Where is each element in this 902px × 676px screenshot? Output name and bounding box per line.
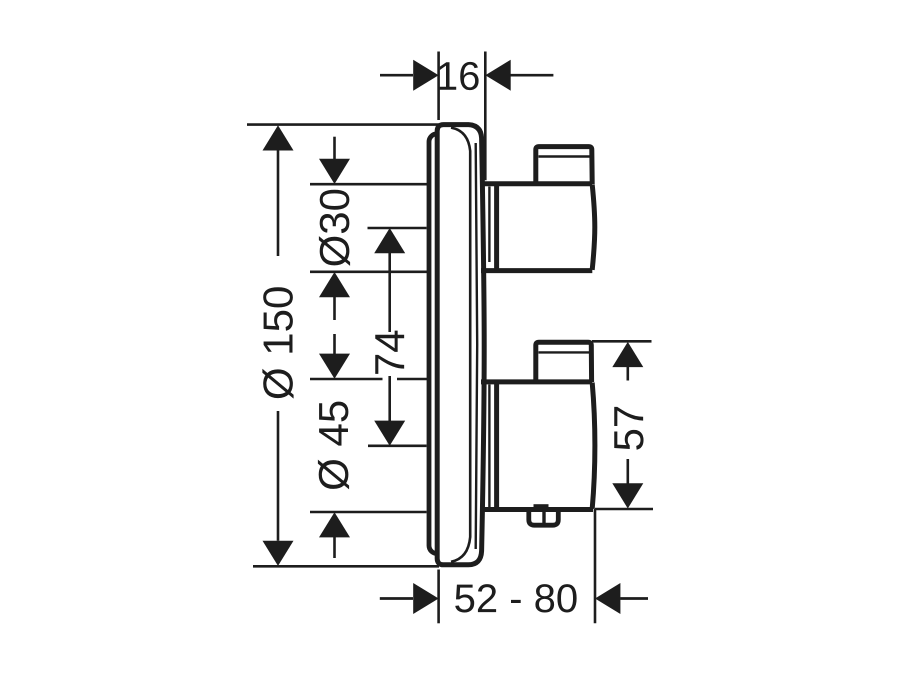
dimension 52-80 arrows xyxy=(380,583,648,614)
knob2 lever groove xyxy=(539,351,590,353)
dimension Ø30 label xyxy=(319,190,350,266)
knob2 neck inner line xyxy=(488,385,490,508)
plate face edge line xyxy=(476,143,478,549)
dimension 74 line xyxy=(374,228,405,446)
safety-stop tab bump xyxy=(534,504,549,510)
dimension 52-80 extension lines xyxy=(437,570,440,624)
safety-stop tab under knob2 xyxy=(529,511,559,525)
extension line knob2 top (y=379) xyxy=(310,378,383,381)
knob1 (upper handle) body xyxy=(481,184,595,271)
knob2 (lower handle) body xyxy=(481,382,595,510)
plate face inner contour xyxy=(451,128,470,562)
dimension 16 extension lines xyxy=(437,52,440,121)
extension line knob2 centerline (y=445.8) xyxy=(368,444,427,447)
knob2 lever (grip) xyxy=(536,342,592,382)
extension line bottom of plate (y=566.3) xyxy=(253,565,439,568)
extension line knob1 bottom (y=271.8) xyxy=(310,270,427,273)
extension line knob2 bottom (y=512) xyxy=(310,511,427,514)
dimension Ø45 label xyxy=(318,402,349,490)
dimension 52-80 label xyxy=(455,584,576,612)
knob1 lever groove xyxy=(539,155,590,157)
dimension 57 line xyxy=(612,342,643,509)
dimension Ø30 arrows xyxy=(319,137,350,320)
dimension Ø150 line xyxy=(263,125,294,566)
safety-stop tab divider xyxy=(542,512,545,524)
wall sleeve behind plate xyxy=(429,134,455,554)
dimension 57 label xyxy=(614,407,643,450)
cover plate (side view) xyxy=(437,125,484,565)
dimension 16 label xyxy=(439,62,479,90)
dimension 16 arrows xyxy=(380,60,553,91)
dimension 74 label xyxy=(375,331,404,374)
extension line knob1 top (y=184.2) xyxy=(310,183,427,186)
knob1 lever (grip) xyxy=(536,147,592,184)
dimension 57 extension lines xyxy=(592,340,652,343)
knob1 neck inner line xyxy=(488,187,490,263)
extension line top of plate (y=124.6) xyxy=(247,123,439,126)
dimension Ø150 label xyxy=(262,287,293,398)
extension line knob1 centerline (y=228) xyxy=(368,227,427,230)
dimension Ø45 arrows xyxy=(319,334,350,558)
